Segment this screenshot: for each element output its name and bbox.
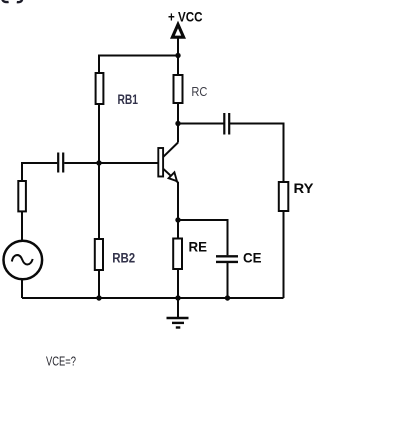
resistor RY xyxy=(279,182,289,211)
ground stem xyxy=(177,298,179,318)
node: RB2 ground junction xyxy=(96,295,101,300)
transistor Q1 emitter lead xyxy=(163,169,178,183)
wire: emitter node across to CE xyxy=(178,220,228,255)
node: RE ground junction xyxy=(175,295,180,300)
svg-text:RE: RE xyxy=(189,239,208,255)
svg-text:RB2: RB2 xyxy=(112,250,135,265)
node: CE ground junction xyxy=(225,295,230,300)
wire: AC source to ground rail xyxy=(21,279,23,298)
AC source VS circle xyxy=(4,241,43,280)
wire: RY bottom to ground rail xyxy=(283,211,285,298)
ground bar 1 xyxy=(167,317,189,319)
wire: coupling capacitor to transistor base xyxy=(64,162,158,164)
cropped caption text fragment ")" top-left xyxy=(17,0,23,2)
wire: RE bottom to ground rail xyxy=(177,269,179,298)
node: collector junction xyxy=(175,121,180,126)
transistor Q1 collector lead xyxy=(163,143,178,157)
wire: bottom ground rail xyxy=(22,297,284,299)
wire: Rs to AC source xyxy=(21,211,23,241)
wire: VCC vertical down to RC xyxy=(177,37,179,75)
wire: RB2 bottom to ground rail xyxy=(98,270,100,298)
capacitor CE plate 2 xyxy=(216,261,238,263)
wire: top horizontal to RB1 xyxy=(99,56,178,74)
svg-text:+ VCC: + VCC xyxy=(168,9,203,24)
svg-text:RC: RC xyxy=(191,84,207,99)
svg-text:RY: RY xyxy=(294,180,315,196)
capacitor CE plate 1 xyxy=(216,255,238,257)
wire: RB1 bottom down through base node to RB2 xyxy=(98,104,100,239)
node: base divider junction xyxy=(96,160,101,165)
resistor RB2 xyxy=(95,239,103,270)
resistor RB1 xyxy=(96,73,104,104)
transistor Q1 emitter open arrowhead xyxy=(169,172,177,181)
wire: input source to coupling capacitor xyxy=(22,163,57,181)
wire: emitter node down to RE xyxy=(177,220,179,239)
capacitor Cout plate 2 xyxy=(228,113,230,135)
cropped caption text fragment "(" top-left xyxy=(2,0,8,2)
resistor Rs (source resistor) xyxy=(18,181,26,211)
node: emitter junction xyxy=(175,217,180,222)
ground bar 3 xyxy=(176,326,181,328)
wire: output capacitor to RY branch xyxy=(229,124,283,183)
capacitor Cin plate 2 xyxy=(62,153,64,173)
wire: collector node to output capacitor xyxy=(178,123,224,125)
AC source sine wave xyxy=(12,255,33,264)
wire: RC bottom to collector node xyxy=(177,103,179,143)
node: VCC tee junction xyxy=(175,53,180,58)
transistor Q1 base bar xyxy=(158,148,163,177)
svg-text:VCE=?: VCE=? xyxy=(46,354,76,368)
capacitor Cout plate 1 xyxy=(223,113,225,135)
wire: emitter down to emitter node xyxy=(177,182,179,220)
svg-text:CE: CE xyxy=(243,249,262,265)
svg-text:RB1: RB1 xyxy=(118,92,139,107)
VCC arrow (open arrowhead pointing up) xyxy=(172,25,183,38)
capacitor Cin plate 1 xyxy=(57,153,59,173)
ground bar 2 xyxy=(172,322,184,324)
resistor RE xyxy=(173,239,182,270)
wire: CE bottom to ground rail xyxy=(227,263,229,298)
resistor RC xyxy=(174,75,183,103)
